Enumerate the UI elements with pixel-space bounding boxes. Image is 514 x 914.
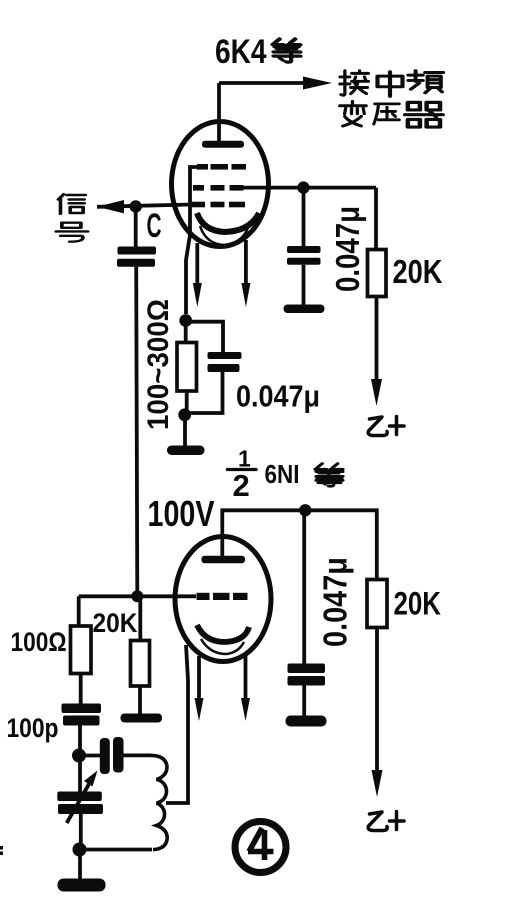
wire C5 to junction — [78, 726, 82, 751]
heater lead V1 left — [195, 243, 199, 285]
variable capacitor C7 stem — [78, 762, 82, 792]
trimmer C6 plates — [100, 738, 110, 774]
label 接 — [340, 71, 368, 95]
capacitor C5 100p plates — [62, 704, 102, 714]
svg-text:100Ω: 100Ω — [11, 627, 67, 657]
wire to IF transformer — [219, 81, 304, 85]
resistor R4 20K — [131, 641, 150, 687]
tube V1 envelope — [172, 122, 269, 247]
wire plate lead V1 — [217, 83, 221, 144]
heater lead V2 right — [244, 654, 248, 700]
svg-text:100V: 100V — [148, 493, 215, 534]
wire V1 screen to right — [240, 186, 376, 190]
wire trimmer to coil — [124, 754, 152, 758]
wire R3 to B+ — [375, 628, 379, 773]
wire R1 to B+ — [375, 297, 379, 382]
wire V2 plate to top — [222, 510, 376, 580]
resistor R3 20K — [367, 580, 387, 628]
label 变 — [340, 101, 366, 126]
node cathode V1 — [179, 314, 192, 327]
label 信 — [58, 194, 85, 214]
arrow to IF transformer — [303, 77, 332, 90]
resistor R1 20K stem — [374, 188, 378, 250]
capacitor C3 plates — [208, 352, 242, 359]
svg-text:100p: 100p — [7, 713, 59, 743]
tube V1 grid row2 — [193, 185, 244, 191]
label 乙+ bottom — [368, 812, 404, 831]
ground bar C2 — [284, 305, 325, 314]
capacitor C2 lower stem — [302, 265, 306, 305]
arrow heater V1 left — [193, 283, 202, 307]
arrow signal input — [97, 200, 124, 213]
node V2 grid junction — [131, 590, 143, 602]
svg-text:100~300Ω: 100~300Ω — [142, 299, 175, 430]
heater lead V1 right — [244, 240, 248, 285]
resistor R2 100-300 — [177, 343, 197, 392]
capacitor C stem — [134, 207, 138, 248]
tube V2 cathode arc — [197, 625, 249, 642]
resistor R1 20K — [368, 250, 387, 297]
arrow B+ top — [371, 379, 382, 406]
tube V2 envelope — [175, 537, 271, 662]
wire V2 cathode to coil tap — [166, 645, 188, 803]
resistor R4 20K stem — [138, 596, 142, 641]
capacitor C4 0.047u stem — [302, 510, 306, 664]
svg-text:20K: 20K — [393, 253, 443, 290]
svg-text:0.047μ: 0.047μ — [317, 557, 354, 647]
arrow heater V1 right — [241, 283, 250, 307]
ground bar R4 — [121, 714, 163, 723]
arrow heater V2 left — [195, 698, 204, 721]
wire to ground V1 cathode — [183, 415, 187, 446]
wire grid wire corner down to R5 — [77, 596, 81, 626]
svg-text:20K: 20K — [394, 586, 442, 622]
tube V1 plate bar — [202, 141, 244, 148]
label 频 — [408, 71, 443, 93]
svg-text:0.047μ: 0.047μ — [236, 379, 320, 414]
tube V2 cathode inner arc — [201, 639, 244, 654]
svg-text:6NI: 6NI — [265, 459, 300, 489]
variable capacitor C7 plates — [57, 792, 102, 802]
figure number circle 4 — [235, 822, 286, 873]
wire V2 grid left — [79, 594, 196, 598]
tube V1 grid row1 — [197, 164, 246, 170]
node V2 plate junction — [299, 504, 311, 516]
svg-text:6K4: 6K4 — [215, 33, 267, 71]
node grid V1 junction — [130, 200, 142, 212]
ground V1 cathode — [167, 446, 205, 456]
capacitor C plates — [118, 247, 157, 255]
capacitor C2 plates — [287, 246, 321, 253]
node cathode bottom — [178, 408, 191, 421]
svg-text:20K: 20K — [93, 608, 138, 638]
label 等 after 6N1 — [315, 464, 343, 487]
variable capacitor C7 arrow — [67, 784, 89, 823]
tube V1 internal cathode wire — [186, 167, 198, 314]
node oscillator bottom — [73, 843, 87, 857]
arrow heater V2 right — [241, 698, 250, 721]
label 等 after 6K4 — [272, 39, 300, 62]
resistor R5 100ohm — [71, 626, 92, 674]
scan artifact left edge — [0, 846, 3, 850]
capacitor C4 lower stem — [302, 684, 306, 717]
wire C down to V2 grid — [136, 267, 137, 597]
tube V2 plate bar — [202, 556, 246, 564]
inductor L1 coil — [151, 755, 167, 849]
tube V1 cathode inner arc — [200, 226, 248, 245]
resistor R2 lower stem — [185, 391, 189, 415]
label 号 — [56, 223, 87, 242]
label 器 — [405, 102, 443, 127]
wire junction to trimmer — [79, 754, 100, 758]
ground bar C4 — [286, 716, 327, 727]
node oscillator top — [72, 749, 86, 763]
tube V1 grid row3 — [192, 202, 245, 208]
label 乙+ top — [368, 417, 404, 436]
resistor R2 100-300 stem — [184, 321, 188, 344]
capacitor C4 plates — [288, 664, 326, 674]
wire V1 grid input — [97, 205, 192, 207]
wire junction to coil bottom — [80, 848, 153, 852]
svg-text:C: C — [147, 207, 162, 245]
node screen junction — [297, 181, 309, 193]
capacitor C2 0.047u stem — [302, 188, 306, 247]
svg-text:2: 2 — [233, 468, 250, 503]
wire to main ground — [78, 856, 82, 879]
tube V2 grid dashes — [197, 593, 248, 600]
label 中 — [378, 72, 403, 97]
svg-text:0.047μ: 0.047μ — [329, 206, 366, 292]
tube V1 cathode arc — [197, 213, 259, 232]
label 压 — [374, 104, 399, 124]
heater lead V2 left — [197, 656, 201, 700]
ground main — [58, 879, 106, 892]
wire R4 to ground — [138, 686, 142, 714]
wire cathode junction to C3 — [186, 322, 223, 352]
capacitor C3 lower wire — [186, 372, 223, 413]
wire R5 to C5 — [79, 674, 83, 705]
variable capacitor C7 lower stem — [79, 814, 83, 850]
arrow B+ bottom — [372, 770, 383, 797]
